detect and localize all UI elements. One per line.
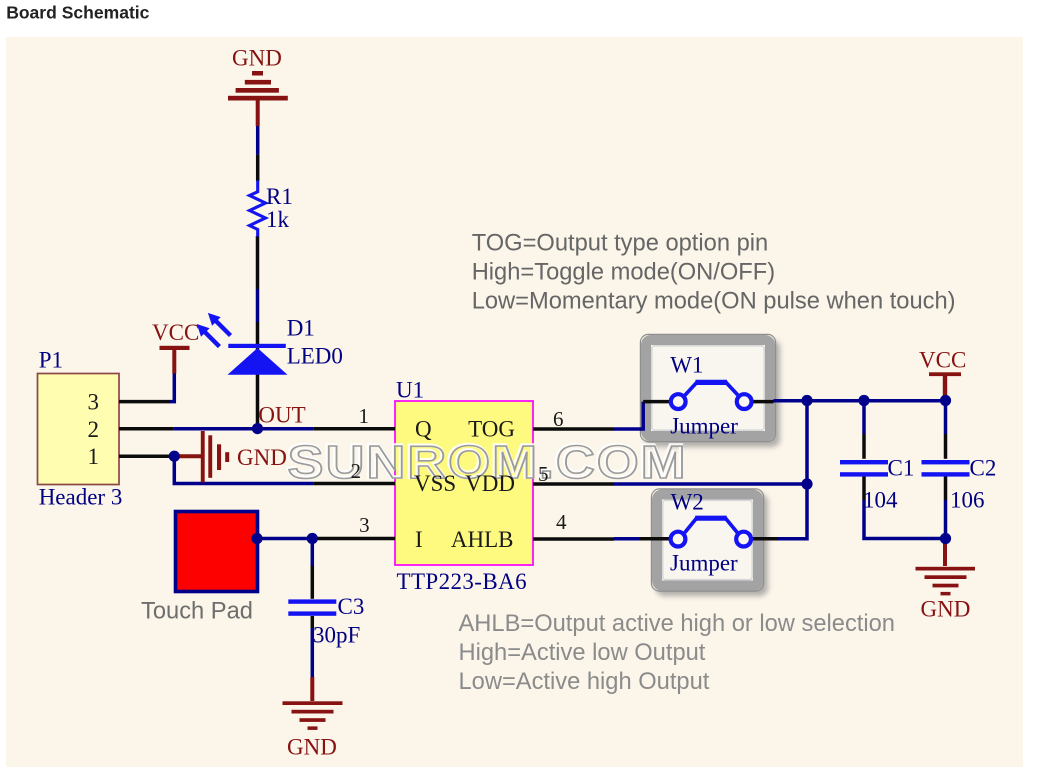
wire: U1 pin3 lead (black) xyxy=(312,537,395,541)
svg-text:U1: U1 xyxy=(396,377,424,402)
wire: C2 pin 2 (black) xyxy=(944,477,948,501)
node touchpad edge junction xyxy=(251,533,262,544)
svg-text:VDD: VDD xyxy=(465,471,515,496)
IC U1 body xyxy=(395,401,533,565)
jumper W2 symbol xyxy=(671,518,751,546)
wire: U1 pin1 lead (black) xyxy=(314,427,395,431)
wire: pin1 to VSS (navy) xyxy=(171,456,314,483)
svg-text:1: 1 xyxy=(359,404,370,428)
svg-text:Low=Momentary mode(ON pulse wh: Low=Momentary mode(ON pulse when touch) xyxy=(472,289,956,315)
svg-text:2: 2 xyxy=(88,417,100,442)
svg-text:D1: D1 xyxy=(287,316,315,341)
LED D1 xyxy=(197,313,288,375)
svg-text:3: 3 xyxy=(88,390,100,415)
wire: C3 top (navy) xyxy=(311,539,315,567)
wire: VCC left stub (maroon) xyxy=(172,349,176,374)
wire: select rail vertical (navy) xyxy=(778,401,807,539)
svg-text:4: 4 xyxy=(556,510,567,534)
svg-text:30pF: 30pF xyxy=(313,623,360,648)
wire: U1 pin6 lead (black) xyxy=(533,427,614,431)
svg-text:TOG=Output type option pin: TOG=Output type option pin xyxy=(472,231,769,257)
svg-text:AHLB: AHLB xyxy=(451,527,514,552)
svg-text:VCC: VCC xyxy=(919,348,966,373)
capacitor C3 plates xyxy=(288,599,336,615)
resistor R1 xyxy=(250,181,266,237)
wire: W2 pin b (black) xyxy=(751,537,778,541)
svg-text:5: 5 xyxy=(538,462,549,486)
wire: navy segment above LED xyxy=(256,289,260,322)
wire: top rail to VCC (navy) xyxy=(774,399,946,403)
svg-text:Jumper: Jumper xyxy=(670,551,738,576)
node C2 bottom junction xyxy=(940,533,951,544)
capacitor C2 plates xyxy=(922,460,970,477)
ground GND right xyxy=(916,567,976,596)
wire: C1 pin 1 (black) xyxy=(862,434,866,459)
svg-text:VCC: VCC xyxy=(152,320,199,345)
wire: U1 pin5 lead (black) xyxy=(533,482,614,486)
wire: pin4 to W2 (navy) xyxy=(614,537,640,541)
wire: W1 pin b (black) xyxy=(752,400,774,404)
svg-text:High=Active low Output: High=Active low Output xyxy=(459,640,706,666)
wire: C3 pin 1 (black) xyxy=(311,566,315,599)
wire: GND right stub (maroon) xyxy=(943,539,947,567)
node OUT junction xyxy=(252,423,263,434)
wire: C2 pin 1 (black) xyxy=(944,434,948,459)
svg-text:W2: W2 xyxy=(671,490,704,515)
jumper W2 frame xyxy=(651,489,768,596)
wire: W1 pin a (black) xyxy=(643,400,670,404)
wire: GND top stub (maroon) xyxy=(256,99,260,126)
svg-text:High=Toggle mode(ON/OFF): High=Toggle mode(ON/OFF) xyxy=(472,259,775,285)
svg-text:Touch Pad: Touch Pad xyxy=(141,599,253,625)
wire: pin6 to W1 jog (navy) xyxy=(614,402,643,429)
node W1 out junction xyxy=(801,395,812,406)
svg-text:C2: C2 xyxy=(970,456,997,481)
svg-text:GND: GND xyxy=(287,735,337,760)
wire: LED pin down to OUT junction (black) xyxy=(256,322,260,429)
svg-text:Jumper: Jumper xyxy=(670,414,738,439)
wire: C3 to GND (navy) xyxy=(311,628,315,677)
node I/C3 junction xyxy=(307,533,318,544)
power VCC left bar xyxy=(160,346,190,350)
svg-text:OUT: OUT xyxy=(258,402,305,427)
power VCC right bar xyxy=(929,372,961,376)
watermark SUNROM.COM xyxy=(287,436,688,488)
svg-text:W1: W1 xyxy=(670,353,703,378)
svg-text:R1: R1 xyxy=(266,184,293,209)
svg-text:3: 3 xyxy=(359,513,370,537)
svg-text:TTP223-BA6: TTP223-BA6 xyxy=(397,569,528,594)
capacitor C1 plates xyxy=(840,460,888,477)
wire: OUT net (navy) xyxy=(174,427,314,431)
svg-text:C3: C3 xyxy=(338,594,365,619)
ground GND mid (sideways) xyxy=(201,431,229,482)
wire: touch pad to junction (navy) xyxy=(257,537,312,541)
svg-text:1: 1 xyxy=(88,444,100,469)
wire: GND mid stub (maroon) xyxy=(174,454,201,458)
node VCC rail junction xyxy=(940,395,951,406)
LED arrow 2 xyxy=(215,320,231,335)
connector P1 body xyxy=(38,374,120,485)
node C1 top junction xyxy=(858,395,869,406)
svg-text:GND: GND xyxy=(232,46,282,71)
svg-text:Q: Q xyxy=(415,417,432,442)
svg-text:GND: GND xyxy=(921,597,971,622)
svg-text:P1: P1 xyxy=(39,347,63,372)
wire: P1 pin1 stub (black) xyxy=(119,454,171,458)
svg-text:1k: 1k xyxy=(266,207,290,232)
svg-text:2: 2 xyxy=(351,459,362,483)
svg-text:Low=Active high Output: Low=Active high Output xyxy=(459,669,710,695)
jumper W1 symbol xyxy=(671,382,752,409)
node pin1/GND junction xyxy=(169,451,180,462)
svg-text:Board Schematic: Board Schematic xyxy=(6,2,149,22)
svg-text:6: 6 xyxy=(553,407,564,431)
wire: VCC left drop (navy) xyxy=(170,374,174,402)
wire: C3 pin 2 (black) xyxy=(311,616,315,628)
wire: U1 pin2 lead (black) xyxy=(314,482,395,486)
ground GND top (inverted) xyxy=(228,71,288,101)
wire: R1 pin 2 to LED (black) xyxy=(256,236,260,289)
wire: P1 pin2 stub (black) xyxy=(119,427,174,431)
svg-text:GND: GND xyxy=(237,445,287,470)
svg-text:I: I xyxy=(415,527,423,552)
wire: VCC right stub (maroon) xyxy=(943,376,947,400)
wire: C1 pin 2 (black) xyxy=(862,477,866,501)
svg-text:104: 104 xyxy=(863,488,898,513)
wire: GND to R1 (navy) xyxy=(256,126,260,155)
wire: C2 top (navy) xyxy=(944,399,948,434)
svg-text:Header 3: Header 3 xyxy=(39,485,123,510)
touch pad xyxy=(176,512,258,592)
wire: VDD net (navy) xyxy=(614,482,807,486)
svg-text:AHLB=Output active high or low: AHLB=Output active high or low selection xyxy=(459,611,895,637)
svg-text:TOG: TOG xyxy=(468,417,515,442)
wire: C1 bottom to GND rail (navy) xyxy=(864,500,945,539)
wire: GND bottom stub (maroon) xyxy=(310,677,314,701)
wire: C1 top (navy) xyxy=(862,401,866,435)
wire: C2 bottom (navy) xyxy=(944,500,948,539)
svg-text:LED0: LED0 xyxy=(287,344,343,369)
svg-text:VSS: VSS xyxy=(414,471,456,496)
node VDD junction xyxy=(801,478,812,489)
svg-text:106: 106 xyxy=(950,488,985,513)
wire: R1 pin 1 (black) xyxy=(256,155,260,181)
wire: P1 pin3 stub (black) xyxy=(119,400,170,404)
wire: U1 pin4 lead (black) xyxy=(533,537,614,541)
wire: W2 pin a (black) xyxy=(640,537,672,541)
svg-text:C1: C1 xyxy=(888,456,915,481)
LED arrow 1 xyxy=(204,331,220,347)
ground GND bottom (C3) xyxy=(283,701,343,730)
jumper W1 frame xyxy=(640,334,780,447)
